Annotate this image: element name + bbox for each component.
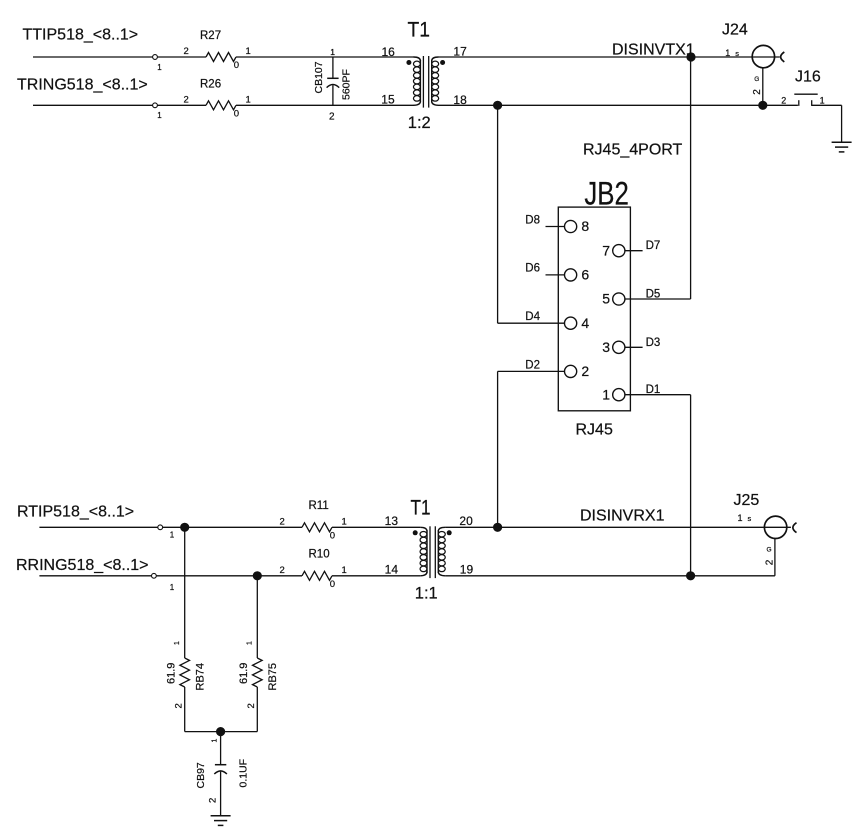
svg-text:1: 1	[170, 530, 175, 539]
svg-text:1: 1	[157, 63, 162, 72]
wire RRING518 net to port circle	[39, 575, 151, 577]
svg-text:D3: D3	[646, 337, 661, 349]
svg-text:R10: R10	[309, 549, 330, 561]
wire port to R27	[157, 56, 206, 58]
svg-text:D6: D6	[525, 263, 540, 275]
svg-text:2: 2	[184, 46, 189, 57]
svg-text:CB107: CB107	[313, 61, 325, 93]
ground (top right)	[832, 141, 852, 143]
svg-text:1: 1	[211, 739, 218, 743]
wire port to R26	[157, 104, 206, 106]
phase dot primary	[406, 60, 411, 65]
resistor R10	[302, 571, 332, 580]
JB2 pin 1 circle	[613, 389, 625, 401]
svg-text:R27: R27	[200, 30, 221, 42]
phase dot primary (bottom)	[413, 530, 418, 535]
svg-text:J16: J16	[795, 69, 821, 86]
junction pin19 wire / D1 branch	[686, 571, 695, 580]
transformer core line 1	[422, 56, 424, 108]
svg-text:2: 2	[280, 517, 285, 528]
svg-text:8: 8	[581, 218, 589, 234]
svg-text:2: 2	[246, 703, 257, 708]
connector JB2 body	[558, 207, 630, 411]
wire T1 pin20 to J25 (net DISINVRX1)	[445, 526, 791, 528]
svg-text:D2: D2	[525, 359, 540, 371]
resistor R26	[206, 101, 236, 110]
transformer T1 primary winding (pins 13-14)	[420, 527, 427, 531]
svg-text:560PF: 560PF	[340, 69, 352, 100]
wire down to ground	[841, 105, 843, 142]
J16 shunt bar	[794, 93, 817, 95]
capacitor CB107 curved plate	[327, 85, 340, 88]
wire port to R11	[163, 526, 302, 528]
wire D6 stub	[546, 274, 565, 276]
JB2 pin 5 circle	[613, 293, 625, 305]
transformer core line 2	[428, 56, 430, 108]
svg-text:2: 2	[329, 112, 335, 123]
svg-text:RRING518_<8..1>: RRING518_<8..1>	[16, 557, 149, 574]
J24 coax contact arc	[781, 52, 785, 62]
svg-text:D8: D8	[525, 214, 540, 226]
J16 pin 2 stub	[798, 100, 800, 106]
transformer core line 1 (bottom)	[429, 526, 431, 578]
wire bottom rail RB74-RB75	[185, 731, 258, 733]
svg-text:2: 2	[173, 703, 184, 708]
svg-text:16: 16	[382, 45, 396, 59]
svg-text:1: 1	[725, 48, 730, 58]
svg-text:DISINVTX1: DISINVTX1	[612, 42, 695, 59]
svg-text:6: 6	[581, 267, 589, 283]
wire RTIP junction down to RB74	[184, 527, 186, 658]
svg-text:5: 5	[602, 291, 610, 307]
JB2 pin 2 circle	[565, 365, 577, 377]
wire D5 to DISINVTX1 branch	[625, 298, 691, 300]
svg-text:17: 17	[453, 45, 467, 59]
wire D1 down to pin19 wire	[690, 395, 692, 576]
svg-text:3: 3	[602, 339, 610, 355]
svg-text:DISINVRX1: DISINVRX1	[580, 508, 665, 525]
wire TTIP518 net to port circle	[33, 56, 153, 58]
svg-text:D4: D4	[525, 311, 540, 323]
svg-text:61.9: 61.9	[238, 663, 250, 684]
connector J24 coax jack circle	[752, 45, 774, 67]
JB2 pin 4 circle	[565, 317, 577, 329]
JB2 pin 8 circle	[565, 220, 577, 232]
wire D7 stub	[625, 250, 643, 252]
resistor R27	[206, 53, 236, 62]
svg-text:TTIP518_<8..1>: TTIP518_<8..1>	[23, 27, 139, 44]
wire D2 down to DISINVRX1 wire	[497, 371, 499, 527]
wire J24 ground lead	[762, 68, 764, 106]
svg-text:J24: J24	[722, 21, 748, 38]
svg-text:G: G	[767, 547, 772, 554]
wire CB107 bottom lead	[332, 85, 334, 105]
svg-text:2: 2	[752, 89, 763, 95]
transformer T1 secondary winding (pins 20-19)	[438, 527, 445, 531]
junction RTIP / RB74	[180, 523, 189, 532]
svg-text:J25: J25	[734, 492, 760, 509]
svg-text:0: 0	[330, 531, 335, 542]
wire CB97 top lead	[220, 732, 222, 765]
wire port to R10	[156, 575, 302, 577]
svg-text:TRING518_<8..1>: TRING518_<8..1>	[17, 76, 148, 93]
svg-text:13: 13	[385, 514, 399, 528]
svg-text:2: 2	[184, 95, 189, 106]
svg-text:2: 2	[581, 363, 589, 379]
svg-text:61.9: 61.9	[166, 663, 178, 684]
svg-text:D7: D7	[646, 240, 661, 252]
svg-text:7: 7	[602, 242, 610, 258]
resistor RB75	[252, 658, 262, 687]
svg-text:2: 2	[764, 559, 775, 565]
phase dot secondary	[440, 60, 445, 65]
svg-text:1: 1	[246, 46, 251, 57]
junction bottom rail / CB97	[216, 727, 225, 736]
junction pin18 wire / J24 ground	[758, 101, 767, 110]
wire J25 ground lead	[774, 539, 776, 576]
wire R11 to T1 pin13	[332, 526, 420, 528]
capacitor CB97 curved plate	[214, 771, 227, 774]
svg-text:RB75: RB75	[267, 663, 279, 691]
svg-text:1: 1	[342, 565, 347, 576]
J16 pin 1 stub	[811, 100, 813, 106]
svg-text:20: 20	[459, 514, 473, 528]
JB2 pin 7 circle	[613, 245, 625, 257]
port pin circle TTIP	[153, 55, 158, 60]
svg-text:1: 1	[157, 111, 162, 120]
svg-text:1:1: 1:1	[415, 585, 438, 603]
svg-text:s: s	[748, 514, 752, 523]
wire R26 to T1 pin15	[236, 104, 414, 106]
svg-text:18: 18	[453, 93, 467, 107]
wire CB107 top lead	[332, 57, 334, 78]
svg-text:RJ45: RJ45	[576, 422, 613, 439]
wire D8 stub	[546, 226, 565, 228]
svg-text:RJ45_4PORT: RJ45_4PORT	[583, 142, 683, 159]
svg-text:1: 1	[247, 641, 254, 645]
svg-text:1: 1	[170, 583, 175, 592]
svg-text:19: 19	[460, 563, 474, 577]
junction DISINVTX1 / D5 branch	[686, 52, 695, 61]
junction pin18 wire / D4 branch	[493, 101, 502, 110]
wire RB75 to bottom rail	[256, 687, 258, 732]
wire DISINVTX1 junction down to D5	[690, 57, 692, 299]
svg-text:0: 0	[234, 60, 239, 71]
svg-text:1: 1	[246, 95, 251, 106]
svg-text:s: s	[735, 49, 739, 58]
svg-text:RTIP518_<8..1>: RTIP518_<8..1>	[17, 503, 134, 520]
svg-text:1: 1	[602, 386, 610, 402]
wire T1 pin19 to J25 ground	[445, 575, 775, 577]
svg-text:CB97: CB97	[195, 762, 207, 788]
resistor RB74	[180, 658, 190, 687]
svg-text:0: 0	[330, 579, 335, 590]
svg-text:2: 2	[208, 798, 219, 803]
wire CB97 bottom lead	[220, 772, 222, 816]
svg-text:14: 14	[385, 563, 399, 577]
svg-text:2: 2	[280, 565, 285, 576]
wire pin18 junction down to D4	[497, 105, 499, 323]
wire J16 pin1 to ground	[812, 104, 842, 106]
svg-text:G: G	[754, 76, 759, 83]
wire D2 to pin 2	[498, 370, 565, 372]
transformer T1 primary winding (pins 16-15)	[414, 57, 421, 61]
port pin circle TRING	[153, 103, 158, 108]
wire R10 to T1 pin14	[332, 575, 420, 577]
svg-text:0: 0	[234, 109, 239, 120]
svg-text:R11: R11	[309, 500, 329, 512]
svg-text:0.1UF: 0.1UF	[238, 759, 250, 788]
wire RB74 to bottom rail	[184, 687, 186, 732]
wire D4 to pin 4	[498, 322, 565, 324]
junction DISINVRX1 / D2 branch	[493, 523, 502, 532]
connector J25 coax jack circle	[764, 516, 786, 538]
wire T1 pin18 to J16 pin2	[439, 104, 798, 106]
wire RTIP518 net to port circle	[39, 526, 157, 528]
resistor R11	[302, 523, 332, 532]
svg-text:1: 1	[342, 517, 347, 528]
svg-text:15: 15	[381, 93, 395, 107]
junction RRING / RB75	[253, 571, 262, 580]
svg-text:JB2: JB2	[584, 176, 629, 212]
wire D1 to DISINVRX branch	[625, 394, 691, 396]
wire D3 stub	[625, 346, 643, 348]
JB2 pin 3 circle	[613, 341, 625, 353]
svg-text:2: 2	[781, 95, 786, 105]
svg-text:T1: T1	[408, 19, 431, 42]
capacitor CB97 flat plate	[215, 764, 226, 766]
phase dot secondary (bottom)	[447, 530, 452, 535]
wire RRING junction down to RB75	[256, 576, 258, 658]
svg-text:T1: T1	[411, 496, 431, 519]
svg-text:4: 4	[581, 315, 589, 331]
port pin circle RTIP	[158, 525, 163, 530]
ground (bottom)	[211, 815, 231, 817]
svg-text:1: 1	[820, 95, 825, 105]
wire R27 to T1 pin16	[236, 56, 414, 58]
svg-text:R26: R26	[200, 78, 221, 90]
svg-text:1: 1	[174, 641, 181, 645]
svg-text:1: 1	[330, 47, 335, 57]
port pin circle RRING	[152, 573, 157, 578]
svg-text:RB74: RB74	[195, 663, 207, 691]
svg-text:1: 1	[738, 513, 743, 523]
capacitor CB107 flat plate	[327, 77, 338, 79]
transformer T1 secondary winding (pins 17-18)	[432, 57, 439, 61]
svg-text:1:2: 1:2	[408, 114, 431, 132]
wire TRING518 net to port circle	[33, 104, 153, 106]
JB2 pin 6 circle	[565, 269, 577, 281]
wire T1 pin17 to J24 (net DISINVTX1)	[439, 56, 780, 58]
J25 coax contact arc	[793, 523, 797, 533]
transformer core line 2 (bottom)	[434, 526, 436, 578]
